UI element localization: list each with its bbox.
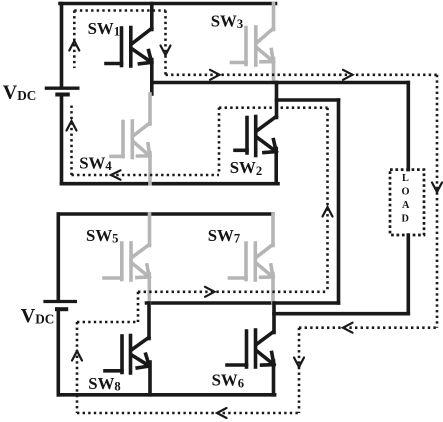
dotted path seg x299.5 vertical bbox=[298, 328, 301, 413]
transistor SW7 gray bbox=[230, 214, 274, 303]
dotted path seg mid horizontal y74.5 bbox=[166, 74, 438, 77]
arrow right mid2 bbox=[343, 70, 353, 80]
arrow left y174.5 bbox=[111, 170, 121, 179]
dotted path seg sw1 vertical bbox=[164, 11, 167, 75]
arrow down right vertical bbox=[432, 183, 442, 193]
transistor SW4 gray bbox=[111, 94, 150, 184]
dotted path seg x219 vertical bbox=[218, 108, 221, 174]
transistor SW6 bbox=[227, 303, 274, 395]
wire left top bridge2 bbox=[56, 214, 60, 301]
dotted path seg y328 horizontal bbox=[299, 326, 437, 329]
wire bottom rail bridge2 bbox=[58, 393, 274, 397]
transistor SW2 bbox=[235, 83, 277, 184]
arrow left y328 bbox=[343, 323, 353, 333]
arrow left bottom bbox=[217, 408, 227, 418]
transistor SW5 gray bbox=[104, 214, 150, 303]
arrow down on sw1 vertical bbox=[161, 46, 171, 56]
transistor SW1 bbox=[106, 4, 152, 95]
arrow right mid1 bbox=[210, 70, 220, 80]
wire left bottom bridge2 bbox=[56, 309, 60, 395]
svg-text:D: D bbox=[402, 214, 409, 225]
wire load bottom to bridge2 output bbox=[274, 312, 408, 316]
load box bbox=[390, 170, 424, 235]
dotted path seg bottom horizontal bbox=[77, 412, 299, 415]
wire output nodeA y83 bbox=[152, 81, 409, 85]
wire right drop to bridge2 bbox=[337, 100, 341, 303]
dotted path seg left-bottom vertical x77 bbox=[76, 322, 79, 413]
wire top rail bridge2 bbox=[58, 212, 272, 216]
arrow up x77 bbox=[72, 351, 82, 361]
dotted path seg x138 vertical bbox=[137, 292, 140, 322]
dotted path seg left mid vertical x77.5 bbox=[70, 106, 73, 176]
battery VDC1 bbox=[45, 88, 80, 94]
svg-text:L: L bbox=[402, 173, 409, 184]
dotted path seg y322 horizontal bbox=[77, 321, 138, 324]
dotted path seg right vertical x438 bbox=[436, 75, 439, 328]
arrow up on left-top bbox=[69, 41, 79, 51]
wire load top drop bbox=[406, 83, 410, 170]
arrow right y291.5 bbox=[205, 287, 215, 297]
svg-text:O: O bbox=[402, 187, 410, 198]
dotted path seg top horizontal bbox=[74, 9, 165, 12]
dotted path seg x327.5 vertical bbox=[326, 108, 329, 292]
battery VDC2 bbox=[43, 302, 77, 310]
arrow down x299.5 bbox=[294, 358, 304, 368]
wire top rail bridge1 bbox=[60, 2, 276, 6]
dotted path seg y291.5 horizontal bbox=[138, 290, 328, 293]
wire left bottom bridge1 bbox=[60, 95, 64, 184]
transistor SW3 gray bbox=[232, 4, 274, 83]
svg-text:A: A bbox=[402, 200, 410, 211]
arrow up x77.5 mid bbox=[67, 121, 77, 131]
dotted path seg y174.5 horizontal bbox=[72, 174, 220, 177]
wire left top bridge1 bbox=[60, 4, 64, 88]
transistor SW8 bbox=[105, 303, 150, 395]
wire bottom rail bridge1 bbox=[62, 182, 279, 186]
dotted path seg y107.5 horizontal bbox=[219, 106, 328, 109]
dotted path seg left-top vertical bbox=[73, 11, 76, 69]
wire load bottom bbox=[406, 235, 410, 314]
wire nodeB link y100.5 bbox=[277, 98, 339, 102]
wire mid rail bridge2 bbox=[147, 301, 339, 305]
arrow up x327.5 bbox=[323, 207, 333, 217]
